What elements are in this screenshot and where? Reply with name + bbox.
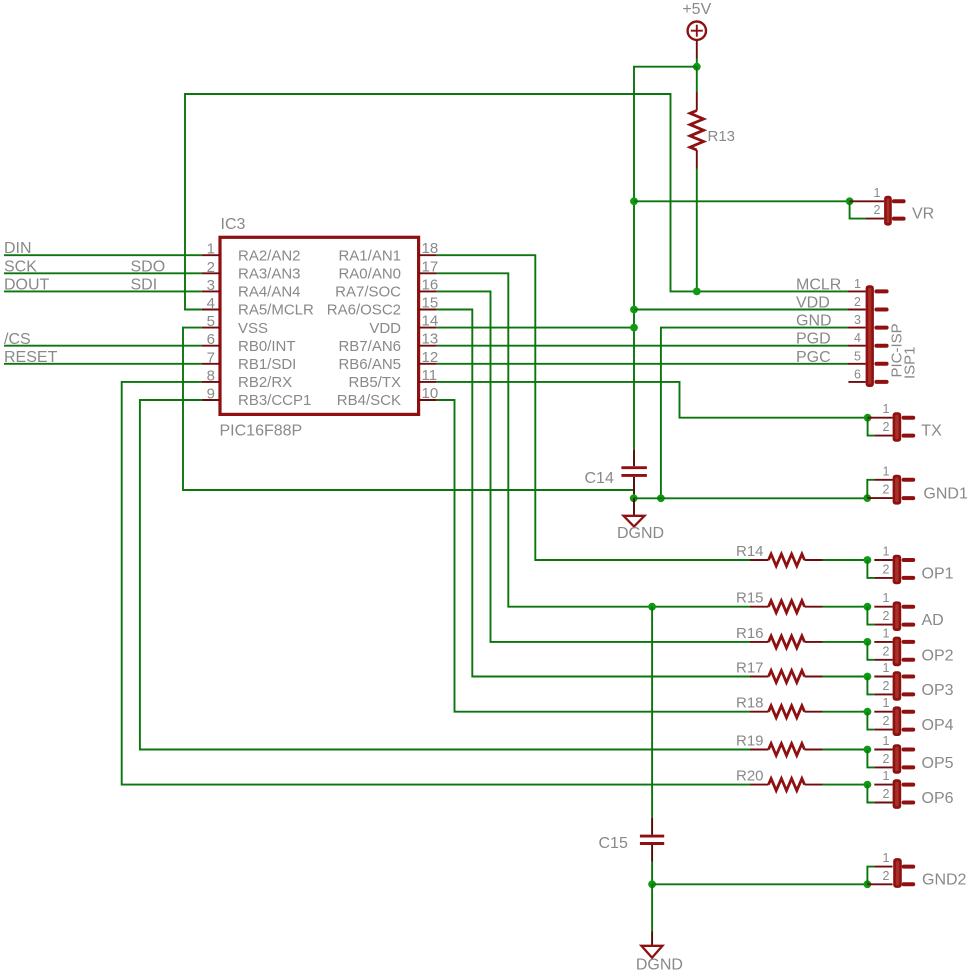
svg-text:PIC16F88P: PIC16F88P xyxy=(220,423,303,440)
connector GND1 body xyxy=(893,475,902,505)
pin line OP4-2 xyxy=(874,729,892,731)
pin stub VR-2 xyxy=(894,217,904,221)
svg-text:OP4: OP4 xyxy=(922,717,954,734)
svg-text:OP2: OP2 xyxy=(922,647,954,664)
wire PGD: IC pin13 to ISP pin4 xyxy=(437,345,848,347)
svg-text:VDD: VDD xyxy=(369,320,401,337)
wire R17 to OP3 pin 1 xyxy=(823,676,868,678)
resistor R18 body xyxy=(769,706,805,718)
svg-text:5: 5 xyxy=(207,313,215,330)
connector TX body xyxy=(893,412,902,442)
wire GND: ISP pin3 down to ground rail xyxy=(661,328,848,499)
svg-text:1: 1 xyxy=(883,545,890,559)
pin 6 stub IC3 xyxy=(202,345,220,347)
wire OP3 pin 2 branch xyxy=(867,677,874,695)
svg-text:3: 3 xyxy=(854,313,861,327)
wire SCK to IC pin2 xyxy=(4,272,202,274)
svg-text:RB4/SCK: RB4/SCK xyxy=(337,392,401,409)
pin 7 stub IC3 xyxy=(202,363,220,365)
pin line OP1-1 xyxy=(874,559,892,561)
pin 4 stub IC3 xyxy=(202,309,220,311)
svg-text:1: 1 xyxy=(883,769,890,783)
svg-text:DOUT: DOUT xyxy=(4,276,50,293)
svg-text:RB1/SDI: RB1/SDI xyxy=(238,356,296,373)
wire IC pin14 VDD to +5V rail xyxy=(437,327,634,329)
pin line OP4-1 xyxy=(874,711,892,713)
svg-text:1: 1 xyxy=(883,464,890,478)
connector GND2 body xyxy=(893,858,902,888)
wire ground to GND2 pin 2 xyxy=(652,883,868,885)
wire IC pin15 RA6/OSC2 to R17 xyxy=(437,310,750,677)
svg-text:10: 10 xyxy=(422,385,439,402)
pin stub AD-2 xyxy=(904,623,914,627)
pin stub OP2-2 xyxy=(904,658,914,662)
resistor R15 leads xyxy=(750,606,769,608)
junction GND rail xyxy=(657,494,665,502)
wire AD net down to C15 xyxy=(651,607,653,818)
svg-text:RA6/OSC2: RA6/OSC2 xyxy=(327,302,401,319)
svg-text:5: 5 xyxy=(854,349,861,363)
svg-text:DIN: DIN xyxy=(4,240,32,257)
junction +5V to VR xyxy=(630,197,638,205)
connector OP1 body xyxy=(893,555,902,585)
svg-text:18: 18 xyxy=(422,240,439,257)
svg-text:C15: C15 xyxy=(599,835,628,852)
pin line OP1-2 xyxy=(874,577,892,579)
wire PGC: IC pin12 to ISP pin5 xyxy=(437,363,848,365)
junction OP2 pin 1 xyxy=(864,638,872,646)
junction VDD at +5V rail xyxy=(630,324,638,332)
svg-text:RB3/CCP1: RB3/CCP1 xyxy=(238,392,311,409)
wire DIN to IC pin1 xyxy=(4,254,202,256)
svg-text:DGND: DGND xyxy=(636,957,683,974)
pin stub OP4-1 xyxy=(904,710,914,714)
pin stub TX-2 xyxy=(904,434,914,438)
wire GND2 pin 1 branch xyxy=(867,867,874,885)
svg-text:2: 2 xyxy=(883,483,890,497)
svg-text:/CS: /CS xyxy=(4,331,31,348)
svg-text:RB6/AN5: RB6/AN5 xyxy=(338,356,401,373)
pin line OP5-2 xyxy=(874,766,892,768)
capacitor C14 xyxy=(621,449,647,494)
wire C15 to ground junction xyxy=(651,862,653,885)
wire +5V rail left and down to C14 xyxy=(634,67,697,450)
svg-text:1: 1 xyxy=(854,277,861,291)
pin line OP6-1 xyxy=(874,784,892,786)
svg-text:PGD: PGD xyxy=(796,331,831,348)
wire R16 to OP2 pin 1 xyxy=(823,641,868,643)
wire C14 to ground junction xyxy=(633,494,635,498)
pin line ISP1-1 xyxy=(848,290,866,292)
pin 16 stub IC3 xyxy=(419,290,437,292)
pin line OP6-2 xyxy=(874,802,892,804)
svg-text:VR: VR xyxy=(912,206,934,223)
svg-text:OP6: OP6 xyxy=(922,790,954,807)
svg-text:2: 2 xyxy=(854,295,861,309)
pin stub TX-1 xyxy=(904,416,914,420)
wire IC pin11 RB5/TX to TX connector xyxy=(437,382,868,418)
svg-text:SDI: SDI xyxy=(131,276,158,293)
pin stub GND2-1 xyxy=(904,865,914,869)
svg-text:1: 1 xyxy=(883,626,890,640)
resistor R19 body xyxy=(769,744,805,756)
junction GND1 pin 2 xyxy=(863,494,871,502)
svg-text:2: 2 xyxy=(883,679,890,693)
wire R13 bottom to MCLR net xyxy=(696,169,698,292)
connector OP3 body xyxy=(893,671,902,701)
svg-text:RB7/AN6: RB7/AN6 xyxy=(338,338,401,355)
pin stub OP6-2 xyxy=(904,801,914,805)
svg-text:2: 2 xyxy=(883,420,890,434)
wire VR pin 2 branch xyxy=(850,201,866,218)
wire R19 to OP5 pin 1 xyxy=(823,749,868,751)
pin line GND1-2 xyxy=(867,497,892,499)
wire +5V to VR pin 1 xyxy=(634,200,850,202)
resistor R13 body xyxy=(690,111,704,151)
wire VDD to ISP pin2 xyxy=(634,309,848,311)
svg-text:4: 4 xyxy=(854,331,861,345)
svg-text:17: 17 xyxy=(422,258,439,275)
wire OP6 pin 2 branch xyxy=(867,785,874,803)
svg-text:R20: R20 xyxy=(736,768,764,785)
junction C15/DGND bottom xyxy=(648,880,656,888)
pin 8 stub IC3 xyxy=(202,381,220,383)
pin stub ISP1-5 xyxy=(876,362,886,366)
svg-text:R16: R16 xyxy=(736,625,764,642)
junction OP6 pin 1 xyxy=(864,781,872,789)
wire OP4 pin 2 branch xyxy=(867,712,874,730)
wire OP5 pin 2 branch xyxy=(867,750,874,768)
pin stub OP6-1 xyxy=(904,783,914,787)
pin line OP2-1 xyxy=(874,641,892,643)
resistor R14 leads xyxy=(750,559,769,561)
svg-text:RA2/AN2: RA2/AN2 xyxy=(238,247,301,264)
svg-text:RA3/AN3: RA3/AN3 xyxy=(238,266,301,283)
svg-text:12: 12 xyxy=(422,349,439,366)
svg-text:2: 2 xyxy=(883,609,890,623)
svg-text:1: 1 xyxy=(874,186,881,200)
svg-text:1: 1 xyxy=(883,851,890,865)
svg-text:6: 6 xyxy=(207,331,215,348)
wire R14 to OP1 pin 1 xyxy=(823,559,868,561)
junction MCLR and R13 xyxy=(693,288,701,296)
svg-text:R13: R13 xyxy=(708,128,736,145)
svg-text:R14: R14 xyxy=(736,543,764,560)
pin 5 stub IC3 xyxy=(202,327,220,329)
wire IC pin8 RB2/RX to R20 xyxy=(122,382,750,785)
pin stub OP3-2 xyxy=(904,692,914,696)
svg-text:RB0/INT: RB0/INT xyxy=(238,338,296,355)
pin 11 stub IC3 xyxy=(419,381,437,383)
pin stub ISP1-1 xyxy=(876,289,886,293)
svg-text:AD: AD xyxy=(922,612,944,629)
svg-text:MCLR: MCLR xyxy=(796,276,841,293)
wire IC pin10 RB4/SCK to R18 xyxy=(437,400,750,712)
svg-text:7: 7 xyxy=(207,349,215,366)
svg-text:RA5/MCLR: RA5/MCLR xyxy=(238,302,314,319)
connector OP4 body xyxy=(893,706,902,736)
pin 15 stub IC3 xyxy=(419,309,437,311)
svg-text:OP1: OP1 xyxy=(922,565,954,582)
pin line ISP1-6 xyxy=(848,381,865,383)
pin line TX-1 xyxy=(868,417,893,419)
svg-text:2: 2 xyxy=(207,259,215,276)
resistor R17 body xyxy=(769,671,805,683)
connector OP5 body xyxy=(893,744,902,774)
svg-text:RB5/TX: RB5/TX xyxy=(348,374,401,391)
pin line AD-2 xyxy=(874,624,892,626)
resistor R13 leads xyxy=(696,92,698,111)
pin stub VR-1 xyxy=(894,199,904,203)
ground DGND (top) xyxy=(624,498,645,526)
resistor R16 body xyxy=(769,636,805,648)
svg-text:RA1/AN1: RA1/AN1 xyxy=(338,247,401,264)
junction C14/DGND xyxy=(630,494,638,502)
svg-text:1: 1 xyxy=(883,734,890,748)
resistor R18 leads xyxy=(750,711,769,713)
pin 13 stub IC3 xyxy=(419,345,437,347)
pin line ISP1-4 xyxy=(848,345,866,347)
ic IC3 PIC16F88P body xyxy=(220,237,419,414)
connector ISP1 body xyxy=(866,285,874,387)
svg-text:1: 1 xyxy=(207,241,215,258)
junction OP5 pin 1 xyxy=(864,746,872,754)
pin line ISP1-2 xyxy=(848,309,866,311)
svg-text:2: 2 xyxy=(883,644,890,658)
pin stub OP4-2 xyxy=(904,728,914,732)
wire MCLR net: IC pin4 to ISP pin1 xyxy=(185,94,848,310)
pin 17 stub IC3 xyxy=(419,272,437,274)
wire IC pin16 RA7/SOC to R16 xyxy=(437,291,750,642)
pin stub GND1-2 xyxy=(904,496,914,500)
pin line OP2-2 xyxy=(874,659,892,661)
connector VR body xyxy=(884,196,892,226)
pin stub AD-1 xyxy=(904,605,914,609)
resistor R14 body xyxy=(769,554,805,566)
svg-text:1: 1 xyxy=(883,402,890,416)
pin 18 stub IC3 xyxy=(419,254,437,256)
svg-text:RESET: RESET xyxy=(4,349,58,366)
svg-text:3: 3 xyxy=(207,277,215,294)
junction GND2 pin 2 xyxy=(864,880,872,888)
pin 12 stub IC3 xyxy=(419,363,437,365)
svg-text:GND2: GND2 xyxy=(922,872,967,889)
pin stub OP2-1 xyxy=(904,640,914,644)
+5V supply symbol xyxy=(688,22,706,59)
pin 9 stub IC3 xyxy=(202,399,220,401)
pin stub ISP1-6 xyxy=(876,380,886,384)
svg-text:14: 14 xyxy=(422,313,439,330)
svg-text:RA4/AN4: RA4/AN4 xyxy=(238,284,301,301)
wire R15 to AD pin 1 xyxy=(823,606,868,608)
capacitor C15 xyxy=(640,818,664,862)
svg-text:2: 2 xyxy=(883,787,890,801)
svg-text:SDO: SDO xyxy=(131,258,166,275)
pin 1 stub IC3 xyxy=(202,254,220,256)
wire IC pin18 RA1/AN1 to R14 xyxy=(437,255,750,560)
connector OP6 body xyxy=(893,779,902,809)
svg-text:VSS: VSS xyxy=(238,320,268,337)
svg-text:R15: R15 xyxy=(736,590,764,607)
svg-text:ISP1: ISP1 xyxy=(902,346,919,379)
svg-text:TX: TX xyxy=(921,422,942,439)
pin line TX-2 xyxy=(874,435,892,437)
pin line GND1-1 xyxy=(874,479,892,481)
pin line ISP1-5 xyxy=(848,363,866,365)
wire OP2 pin 2 branch xyxy=(867,642,874,660)
wire /CS to IC pin6 xyxy=(4,345,202,347)
pin stub GND2-2 xyxy=(904,882,914,886)
resistor R16 leads xyxy=(750,641,769,643)
wire +5V symbol to junction xyxy=(696,59,698,67)
wire IC pin17 RA0/AN0 to R15 xyxy=(437,273,750,606)
wire AD pin 2 branch xyxy=(867,607,874,625)
pin stub GND1-1 xyxy=(904,478,914,482)
pin line GND2-1 xyxy=(874,866,892,868)
wire down to DGND bottom xyxy=(651,884,653,931)
svg-text:C14: C14 xyxy=(585,470,614,487)
svg-text:9: 9 xyxy=(207,386,215,403)
pin stub ISP1-2 xyxy=(876,308,886,312)
pin line GND2-2 xyxy=(867,883,892,885)
pin line ISP1-3 xyxy=(848,327,866,329)
svg-text:IC3: IC3 xyxy=(221,216,246,233)
wire ground to GND1 pin 2 xyxy=(634,497,868,499)
pin line AD-1 xyxy=(874,606,892,608)
pin stub OP5-1 xyxy=(904,748,914,752)
svg-text:2: 2 xyxy=(883,714,890,728)
pin stub OP3-1 xyxy=(904,675,914,679)
pin stub OP5-2 xyxy=(904,765,914,769)
pin stub OP1-1 xyxy=(904,558,914,562)
svg-text:PGC: PGC xyxy=(796,349,831,366)
svg-text:15: 15 xyxy=(422,295,439,312)
connector OP2 body xyxy=(893,637,902,667)
junction TX pin 1 xyxy=(864,414,872,422)
connector AD body xyxy=(893,601,902,631)
svg-text:VDD: VDD xyxy=(796,295,830,312)
wire R18 to OP4 pin 1 xyxy=(823,711,868,713)
svg-text:11: 11 xyxy=(422,367,438,384)
svg-text:+5V: +5V xyxy=(682,1,711,18)
resistor R20 body xyxy=(769,779,805,791)
junction OP3 pin 1 xyxy=(864,673,872,681)
svg-text:1: 1 xyxy=(883,696,890,710)
svg-text:R17: R17 xyxy=(736,660,764,677)
pin line VR-1 xyxy=(850,200,885,202)
svg-text:GND1: GND1 xyxy=(923,486,968,503)
junction +5V rail to ISP VDD xyxy=(630,306,638,314)
svg-text:RA0/AN0: RA0/AN0 xyxy=(338,266,401,283)
pin line OP5-1 xyxy=(874,749,892,751)
svg-text:DGND: DGND xyxy=(617,525,664,542)
resistor R17 leads xyxy=(750,676,769,678)
svg-text:R18: R18 xyxy=(736,695,764,712)
svg-text:SCK: SCK xyxy=(4,258,37,275)
svg-text:GND: GND xyxy=(796,313,832,330)
svg-text:2: 2 xyxy=(874,203,881,217)
wire VSS net: IC pin5 to C14/DGND xyxy=(183,328,634,490)
svg-text:8: 8 xyxy=(207,367,215,384)
svg-text:1: 1 xyxy=(883,591,890,605)
svg-text:2: 2 xyxy=(883,869,890,883)
pin 10 stub IC3 xyxy=(419,399,437,401)
pin 2 stub IC3 xyxy=(202,272,220,274)
wire IC pin9 RB3/CCP1 to R19 xyxy=(140,400,750,750)
svg-text:RB2/RX: RB2/RX xyxy=(238,374,292,391)
pin line OP3-2 xyxy=(874,693,892,695)
wire GND1 pin 1 branch xyxy=(867,480,874,498)
pin 3 stub IC3 xyxy=(202,290,220,292)
pin stub ISP1-4 xyxy=(876,344,886,348)
wire TX pin 2 branch xyxy=(868,418,875,436)
wire DOUT to IC pin3 xyxy=(4,290,202,292)
svg-text:2: 2 xyxy=(883,562,890,576)
svg-text:13: 13 xyxy=(422,331,439,348)
junction OP1 pin 1 xyxy=(864,556,872,564)
svg-text:4: 4 xyxy=(207,295,215,312)
svg-text:OP3: OP3 xyxy=(922,682,954,699)
pin stub OP1-2 xyxy=(904,576,914,580)
junction AD pin 1 xyxy=(864,603,872,611)
resistor R19 leads xyxy=(750,749,769,751)
svg-text:6: 6 xyxy=(854,367,861,381)
svg-text:R19: R19 xyxy=(736,733,764,750)
wire R20 to OP6 pin 1 xyxy=(823,784,868,786)
resistor R20 leads xyxy=(750,784,769,786)
wire +5V junction to R13 top xyxy=(696,67,698,92)
svg-text:16: 16 xyxy=(422,276,439,293)
svg-text:RA7/SOC: RA7/SOC xyxy=(335,284,401,301)
svg-text:1: 1 xyxy=(883,661,890,675)
pin stub ISP1-3 xyxy=(876,326,886,330)
junction +5V node xyxy=(693,63,701,71)
junction C15 tap on AD net xyxy=(648,603,656,611)
pin line VR-2 xyxy=(866,218,884,220)
resistor R15 body xyxy=(769,601,805,613)
ground DGND (bottom) xyxy=(641,932,662,958)
wire OP1 pin 2 branch xyxy=(867,560,874,578)
pin line OP3-1 xyxy=(874,676,892,678)
pin 14 stub IC3 xyxy=(419,327,437,329)
svg-text:2: 2 xyxy=(883,752,890,766)
junction VR pin 1 xyxy=(846,197,854,205)
svg-text:OP5: OP5 xyxy=(922,755,954,772)
junction OP4 pin 1 xyxy=(864,708,872,716)
wire RESET to IC pin7 xyxy=(4,363,202,365)
